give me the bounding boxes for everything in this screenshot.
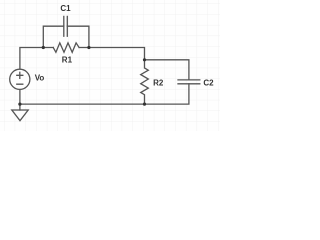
- svg-text:R1: R1: [62, 55, 73, 64]
- resistor R1: [53, 43, 79, 52]
- node: R2 bottom junction: [143, 103, 146, 106]
- wire: source bottom to ground: [19, 89, 21, 110]
- wire: bottom rail: [20, 103, 145, 105]
- wire: R1 right lead to step-down corner: [79, 48, 144, 60]
- wire: C2 bottom lead: [145, 84, 189, 104]
- node: R1/C1 left junction: [42, 46, 45, 49]
- wire: node to C2 top lead: [145, 60, 189, 80]
- capacitor C1: [64, 16, 68, 36]
- svg-text:C2: C2: [203, 78, 214, 87]
- capacitor C2: [178, 80, 200, 84]
- ground: [12, 110, 28, 121]
- node: R2/C2 top junction: [143, 58, 146, 61]
- svg-text:Vo: Vo: [35, 74, 45, 83]
- wire: C1 right branch: [67, 26, 89, 47]
- resistor R2: [141, 60, 149, 104]
- svg-text:C1: C1: [60, 4, 71, 13]
- wire: source top to main rail left lead: [20, 48, 53, 70]
- wire: C1 left branch: [43, 26, 64, 47]
- node: ground junction: [18, 103, 21, 106]
- voltage source V1: [10, 69, 30, 89]
- node: R1/C1 right junction: [87, 46, 90, 49]
- svg-text:R2: R2: [153, 79, 164, 88]
